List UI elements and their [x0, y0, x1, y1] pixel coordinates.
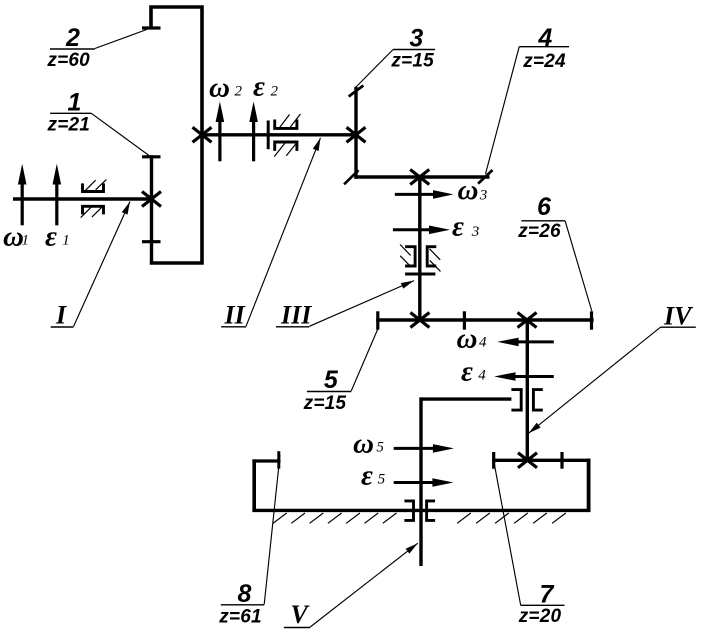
label 2 z=60 [46, 24, 146, 71]
svg-text:z=20: z=20 [518, 606, 562, 627]
label 7 z=20 [494, 464, 564, 627]
X joint gear1 to shaft I [142, 192, 161, 207]
svg-text:1: 1 [68, 89, 82, 117]
arrow epsilon5 on shaft V [394, 478, 454, 487]
label omega2 [209, 71, 243, 103]
label epsilon1 [45, 221, 70, 253]
gear 4 (z=24) bevel on shaft III [354, 170, 492, 184]
svg-text:ε: ε [45, 221, 57, 253]
label omega5 [353, 428, 384, 460]
svg-text:8: 8 [238, 580, 252, 608]
X joint gear5 to shaft III [410, 313, 429, 328]
svg-text:3: 3 [409, 24, 423, 52]
label epsilon3 [452, 211, 479, 243]
svg-text:3: 3 [471, 224, 480, 240]
svg-text:z=60: z=60 [46, 50, 90, 71]
svg-text:z=15: z=15 [390, 51, 434, 72]
label omega4 [457, 323, 488, 355]
svg-text:ω: ω [457, 323, 478, 355]
svg-text:V: V [291, 600, 311, 629]
svg-text:II: II [224, 301, 246, 330]
bearing on shaft II [274, 114, 300, 157]
bearing on shaft V at frame [404, 501, 435, 521]
arrow omega5 on shaft V [394, 444, 454, 453]
svg-text:ω: ω [209, 71, 230, 103]
svg-text:z=26: z=26 [517, 221, 561, 242]
svg-text:ω: ω [353, 428, 374, 460]
label epsilon2 [253, 70, 279, 102]
label 1 z=21 [47, 89, 149, 156]
shaft V [419, 397, 422, 566]
frame ground line [252, 509, 590, 512]
svg-text:I: I [55, 301, 67, 330]
X joint gear7 to shaft IV [518, 453, 537, 468]
label omega3 [458, 174, 488, 206]
X joint gear3 to shaft II [347, 127, 366, 142]
svg-text:z=15: z=15 [303, 393, 347, 414]
svg-text:2: 2 [271, 83, 279, 99]
svg-text:4: 4 [478, 368, 486, 384]
arrow omega4 on shaft IV [497, 338, 554, 347]
shaft I [13, 197, 153, 200]
gear 5 (z=15) on shaft III [376, 311, 464, 329]
label shaft II [221, 138, 320, 330]
svg-text:2: 2 [65, 24, 80, 52]
label 4 z=24 [486, 24, 570, 174]
svg-text:4: 4 [537, 24, 552, 52]
thrust collar on shaft II [267, 121, 270, 150]
bearing on shaft IV in carrier [511, 390, 542, 411]
svg-text:2: 2 [235, 83, 243, 99]
bearing on shaft I [81, 180, 107, 218]
svg-text:z=61: z=61 [218, 607, 262, 628]
svg-text:III: III [280, 301, 312, 330]
svg-text:1: 1 [22, 233, 30, 249]
X joint gear2 to shaft II [193, 127, 212, 142]
svg-text:ε: ε [452, 211, 464, 243]
svg-text:ε: ε [253, 70, 265, 102]
arrow epsilon4 on shaft IV [494, 372, 554, 381]
ground hatching [273, 513, 566, 523]
svg-text:ε: ε [461, 356, 473, 388]
shaft III [418, 175, 421, 320]
label 6 z=26 [517, 193, 592, 311]
bearing on shaft III [400, 245, 441, 272]
svg-text:IV: IV [663, 302, 694, 331]
label shaft III [276, 281, 414, 330]
arrow omega1 on shaft I [18, 164, 27, 226]
label omega1 [3, 221, 29, 253]
arrow omega3 on shaft III [395, 190, 454, 199]
svg-text:5: 5 [324, 366, 339, 394]
label 8 z=61 [218, 455, 280, 628]
ring gear 8 (z=61) left wall [252, 451, 280, 512]
svg-text:7: 7 [540, 581, 555, 609]
arrow epsilon1 on shaft I [53, 164, 62, 226]
arrow omega2 on shaft II [216, 102, 225, 162]
X joint gear6 to shaft IV [518, 313, 537, 328]
svg-text:z=24: z=24 [522, 51, 566, 72]
bevel mesh slash gear3/gear4 [344, 170, 358, 184]
carrier arm of shaft V [421, 397, 511, 400]
label epsilon4 [461, 356, 486, 388]
gear 7 (z=20) on shaft IV [492, 452, 590, 469]
svg-text:ε: ε [361, 459, 373, 491]
gear 1 (z=21) on shaft I [142, 155, 161, 263]
svg-text:5: 5 [376, 440, 384, 456]
gear 2 (z=60) on shaft II [142, 7, 202, 263]
gear 6 (z=26) on shaft IV [464, 311, 593, 329]
label shaft V [284, 543, 418, 629]
svg-text:4: 4 [479, 335, 487, 351]
arrow epsilon3 on shaft III [393, 226, 450, 235]
ring gear 8 (z=61) right wall [587, 459, 591, 512]
svg-text:ω: ω [458, 174, 479, 206]
X joint gear4 to shaft III [410, 170, 429, 185]
shaft IV [526, 320, 529, 462]
svg-text:z=21: z=21 [47, 115, 91, 136]
label 5 z=15 [303, 329, 378, 414]
svg-text:5: 5 [378, 472, 386, 488]
arrow epsilon2 on shaft II [249, 102, 258, 162]
label 3 z=15 [355, 24, 436, 88]
gear 3 (z=15) bevel on shaft II [349, 86, 364, 179]
svg-text:3: 3 [479, 188, 488, 204]
shaft II [202, 133, 358, 136]
thrust collar on shaft III [405, 273, 435, 276]
svg-text:1: 1 [62, 233, 70, 249]
label epsilon5 [361, 459, 386, 491]
svg-text:6: 6 [537, 193, 552, 221]
label shaft IV [529, 302, 696, 434]
label shaft I [51, 202, 130, 330]
